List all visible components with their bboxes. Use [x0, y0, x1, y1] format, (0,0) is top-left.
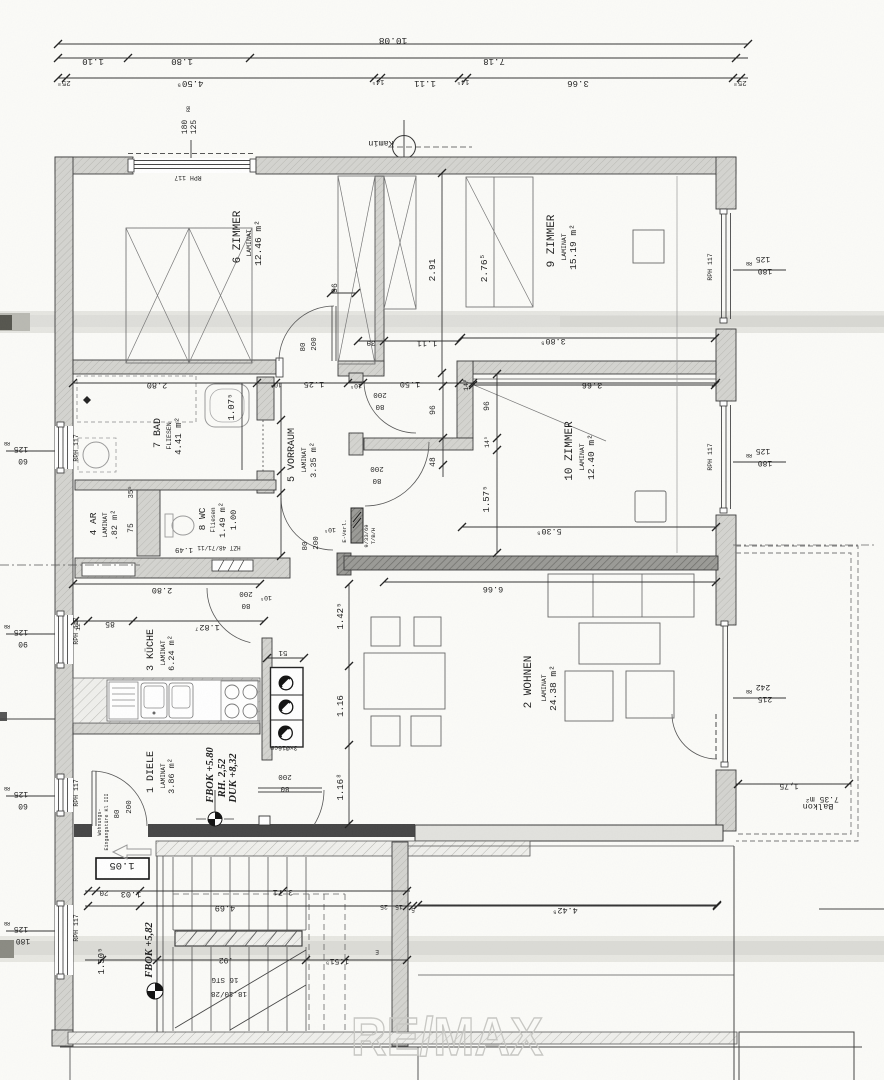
- label RPH 117 under top window: [174, 174, 201, 181]
- right wall window 180/125 (room 9): [720, 209, 731, 323]
- coffee table: [579, 623, 660, 664]
- fridge: [109, 682, 138, 719]
- shaft right of divider (X): [384, 176, 416, 309]
- dimension vertical x=349 (1.42/1.16/1.16): [336, 580, 353, 828]
- dimension 35/75 (AR): [127, 486, 136, 533]
- wall south of AR/WC with niche and radiator: [75, 558, 290, 578]
- window label 180/125 RB (top): [181, 106, 199, 160]
- stair dimension chain y=906: [84, 902, 721, 913]
- door arc vorraum east lower: [365, 442, 429, 506]
- wall bad south: [75, 480, 276, 490]
- wall pillar vorraum west upper: [349, 373, 363, 382]
- room9/10 ref line vertical: [676, 176, 678, 553]
- bath marker diamond: [83, 396, 91, 404]
- exterior top wall (left segment): [55, 157, 133, 174]
- stair dimension chain y=960: [85, 948, 411, 965]
- section dash-dot line through AR: [0, 564, 140, 566]
- bath shower dashed outline: [77, 376, 196, 422]
- dimension chain vertical x=497 (96/14/1.57): [482, 370, 501, 557]
- neighbor horizontal line y=975: [418, 974, 734, 976]
- scan streak band upper: [0, 311, 884, 333]
- exterior left wall: [55, 157, 73, 1032]
- wall kitchen/diele: [73, 723, 260, 734]
- wall divider rooms 6/9: [375, 176, 384, 373]
- bathtub: [205, 384, 249, 427]
- step column 3x16cm: [271, 668, 304, 748]
- room label 9 ZIMMER: [546, 214, 579, 270]
- wardrobe diagonal room 10: [462, 380, 606, 441]
- room label 6 ZIMMER: [232, 210, 264, 266]
- label 1.05 box: [96, 858, 149, 879]
- dimension 39/1.11 (shaft): [354, 337, 463, 348]
- balcony dashed outline outer: [736, 546, 858, 841]
- balcony dashed outline inner: [736, 553, 851, 834]
- dimension 6.66 (wohnen north): [380, 578, 720, 594]
- door arc diele/wohnen: [258, 788, 324, 825]
- dining chairs: [371, 617, 441, 746]
- wall jog vorraum east (vertical): [457, 361, 473, 438]
- kitchen sink: [141, 683, 193, 718]
- bottom right box: [739, 1032, 854, 1080]
- door arc vorraum NE (room 10): [364, 381, 416, 433]
- dimension 1.07 (bath): [227, 383, 242, 470]
- door arc vorraum south: [281, 498, 333, 550]
- dimension 2.80 (kitchen): [69, 580, 264, 595]
- bottom hatched strip: [68, 1032, 737, 1044]
- stair dimension chain y=891: [84, 887, 411, 899]
- label E-Verl. 9/33/69 T/B/H: [341, 519, 377, 547]
- entrance door labels: [97, 793, 134, 850]
- dimension 10.08 (top chain line 1): [54, 35, 752, 48]
- stair treads lower flight: [173, 947, 306, 1031]
- door label 200/80 vorraum NE: [373, 390, 387, 410]
- watermark RE/MAX: [351, 1007, 543, 1067]
- stair dashed rail verticals: [173, 894, 345, 1031]
- dimension 5.30 (room 10 south): [458, 523, 720, 536]
- scan streak band lower: [0, 936, 884, 962]
- line below band (neighbor area): [408, 845, 734, 847]
- wall divider AR/WC: [137, 490, 160, 556]
- door label 200/80 diele: [278, 772, 292, 792]
- label RPH 117 room 10: [707, 443, 714, 470]
- dimension 1.50 vertical (stairs): [97, 947, 107, 974]
- dimension 3.80 (room9 south): [457, 334, 719, 346]
- wall pillar bad east upper: [257, 377, 274, 420]
- level annotation FBOK +5.82: [144, 921, 155, 978]
- dimension 2.91 (vertical): [427, 169, 446, 377]
- wardrobe room 6 (X-crossed): [126, 228, 252, 363]
- radiator label HZT 48/71/11: [175, 544, 241, 553]
- dimension 3.66 (room10 north): [469, 380, 719, 390]
- left margin mark: [0, 712, 7, 721]
- dimension chain kitchen y=621 (12/85/1.82): [71, 617, 268, 632]
- room label 2 WOHNEN: [523, 656, 559, 711]
- level marker diele: [196, 790, 234, 826]
- wall jog vorraum south (horizontal): [364, 438, 473, 450]
- room label 8 WC: [197, 502, 239, 538]
- wall L at divider bottom: [338, 361, 384, 381]
- dimension 51 (steps): [263, 648, 308, 662]
- apartment south wall dark (entrance segment): [74, 824, 415, 837]
- window in top wall: [128, 154, 256, 174]
- kitchen counter row: [73, 678, 260, 723]
- door label 200/80 vorraum east: [370, 464, 384, 484]
- stair treads upper flight: [173, 857, 306, 930]
- small open arrow near 1.05: [113, 845, 151, 859]
- bottom long line: [60, 1046, 862, 1048]
- label 3x16cm: [270, 744, 297, 752]
- dimension 96 (shaft offset): [327, 283, 360, 297]
- left margin window label 125/90 (kitchen): [4, 623, 55, 648]
- toilet: [165, 514, 194, 537]
- dimension 1.10 / 1.80 / 7.18 (top chain line 2): [54, 54, 748, 66]
- room label 1 DIELE: [146, 751, 177, 794]
- bottom-left continuation line: [69, 1047, 71, 1080]
- door arc entrance: [92, 771, 147, 826]
- left margin window label 125/60 (diele): [4, 785, 55, 810]
- balcony label: [779, 781, 839, 811]
- left wall window 180/125 (stairs): [55, 901, 73, 979]
- left margin window label 125/180 (stairs): [4, 920, 55, 945]
- door label 200/80 kitchen: [239, 589, 253, 609]
- dark wall band room10/wohnen: [337, 553, 718, 575]
- left wall window 90/125 (kitchen): [55, 611, 73, 668]
- furniture square room 9: [633, 230, 664, 263]
- right margin door label 215/242 RB: [733, 682, 786, 703]
- room label 10 ZIMMER: [564, 421, 597, 481]
- stair left wall line: [157, 842, 163, 1032]
- washbasin: [78, 438, 116, 472]
- door arc balcony: [672, 714, 717, 760]
- left wall bottom block: [52, 1030, 73, 1046]
- dimension 2.76 (room 9 wardrobe): [479, 254, 490, 283]
- level annotation FBOK +5.80 / RH 2.52 / DUK +8.32: [205, 746, 239, 803]
- shaft left of divider (X): [338, 176, 375, 364]
- right wall balcony door glazing 215/242: [721, 621, 728, 767]
- room label 3 KUECHE: [144, 629, 177, 671]
- room label 7 BAD: [153, 417, 184, 455]
- door stop block on band: [259, 816, 270, 825]
- exterior top wall (right segment): [256, 157, 736, 174]
- dimension 25/4.50/1.11/3.66 (top chain line 3): [54, 74, 748, 88]
- neighbor vertical line x=418: [417, 1047, 419, 1080]
- room label 4 AR: [88, 510, 120, 541]
- stair walk-line diagonals: [175, 950, 306, 1030]
- left wall window 60/125 (diele): [55, 774, 73, 816]
- wall pillar bad east lower: [257, 471, 274, 493]
- door arc room 6: [279, 306, 336, 361]
- armchair 2: [626, 671, 674, 718]
- wall pillar vorraum west mid: [349, 433, 363, 455]
- stair rail hatched strip: [175, 931, 302, 946]
- neighbor dimension line 4.42: [414, 901, 721, 909]
- dining table: [364, 653, 445, 709]
- furniture square room 10: [635, 491, 666, 522]
- balcony dimension 1.75: [734, 780, 853, 788]
- level marker stairs: [147, 983, 163, 999]
- left margin window label 125/60 (bath): [4, 440, 55, 465]
- door arc kitchen: [207, 588, 250, 643]
- label RPH 117 room 9: [707, 253, 714, 280]
- dimension chain y=383 (2.80/1.25/1.50): [69, 379, 720, 391]
- stair right wall: [392, 842, 408, 1046]
- door label 80/200 room 6: [300, 337, 319, 352]
- stove 4 burners: [221, 681, 260, 721]
- dash-dot line right of wall y=545: [733, 544, 877, 546]
- electrical box E-Verl on vorraum wall: [351, 508, 363, 543]
- right margin line y=909: [819, 908, 884, 910]
- landing hatched strip: [156, 841, 530, 856]
- kamin symbol: [368, 120, 472, 170]
- armchair 1: [565, 671, 613, 721]
- exterior right wall: [716, 157, 736, 831]
- dimension 10 (kitchen door): [260, 594, 272, 601]
- wardrobe room 9: [466, 177, 533, 307]
- door label 80/200 vorraum south: [302, 526, 336, 551]
- right margin window label 180/125 RB (room 9): [733, 254, 786, 275]
- room label 5 VORRAUM: [287, 428, 319, 482]
- right wall window 180/125 (room 10): [720, 401, 731, 513]
- dimension 4.42 (lower right): [411, 905, 578, 915]
- sofa: [548, 574, 694, 617]
- wall below room 6: [73, 358, 283, 377]
- stair label 16 STG 18.10/28: [211, 955, 247, 997]
- neighbor right wall line: [733, 846, 735, 1080]
- wall kitchen east bar: [262, 638, 272, 760]
- left wall window 60/125 (bath): [55, 422, 73, 473]
- wall rooms 9/10: [473, 361, 716, 379]
- dimension chain x=281 vertical: [277, 383, 285, 560]
- dimension chain vertical x=443 (96/48): [429, 373, 447, 477]
- apartment south wall light band (wohnen segment): [415, 825, 723, 841]
- right margin window label 180/125 RB (room 10): [733, 446, 786, 467]
- left margin line y=719: [0, 718, 55, 720]
- bad door dashed line: [262, 420, 264, 471]
